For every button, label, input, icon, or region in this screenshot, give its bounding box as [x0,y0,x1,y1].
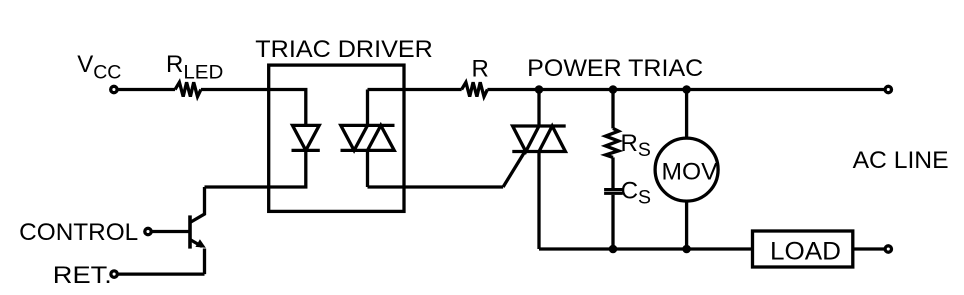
svg-text:CS: CS [621,178,651,209]
transistor Q1 base bar [188,215,192,248]
driver triac MT1 stub [366,150,369,187]
wire CS to bottom rail [611,195,614,249]
transistor Q1 collector [190,187,205,223]
opto-isolator box U1 [269,65,404,211]
junction node bottom 1 [609,245,618,254]
resistor RLED [175,82,201,96]
wire MOV bottom [685,201,688,249]
svg-text:POWER TRIAC: POWER TRIAC [527,55,703,82]
varistor MOV [655,138,718,201]
terminal CONTROL [145,228,151,234]
wire CONTROL to base [152,230,189,233]
resistor RS [606,128,619,157]
svg-text:R: R [472,56,489,83]
wire MOV top [685,90,688,139]
svg-text:AC LINE: AC LINE [853,147,949,174]
load box [753,231,853,267]
LED D1 [292,125,320,150]
transistor Q1 emitter [190,240,205,275]
svg-text:MOV: MOV [662,158,718,185]
svg-text:RET.: RET. [53,262,112,289]
wire driver triac output [368,185,504,188]
svg-text:RS: RS [621,130,651,161]
wire R to AC line top [487,88,884,91]
svg-text:VCC: VCC [77,51,121,84]
svg-text:CONTROL: CONTROL [19,219,138,246]
terminal RET [111,271,117,277]
resistor R [462,82,488,96]
driver triac MT2 stub [366,90,369,126]
terminal AC top [885,86,891,92]
junction node bottom 2 [682,245,691,254]
junction node top 3 [682,85,691,94]
capacitor CS [604,190,623,194]
junction node top 1 [535,85,544,94]
power triac MT2 stub [537,90,540,127]
wire emitter to RET [118,272,205,275]
wire RLED to LED anode [201,90,306,126]
svg-text:TRIAC DRIVER: TRIAC DRIVER [255,36,433,63]
wire VCC to RLED [117,88,175,91]
wire LOAD to AC line bottom [853,247,884,250]
driver triac [341,125,395,150]
terminal VCC [111,86,117,92]
wire RS to CS [611,157,614,188]
terminal AC bottom [885,246,891,252]
transistor Q1 emitter arrowhead [195,239,205,248]
svg-text:LOAD: LOAD [770,237,841,265]
power triac Q2 [512,126,565,152]
wire LED cathode to driver output [205,150,306,187]
junction node top 2 [609,85,618,94]
wire bottom rail [539,247,753,250]
wire snubber top [611,90,614,129]
wire gate diagonal [503,149,526,187]
power triac MT1 wire down [537,152,540,250]
svg-text:RLED: RLED [166,51,223,84]
wire driver MT2 to R [368,88,462,91]
